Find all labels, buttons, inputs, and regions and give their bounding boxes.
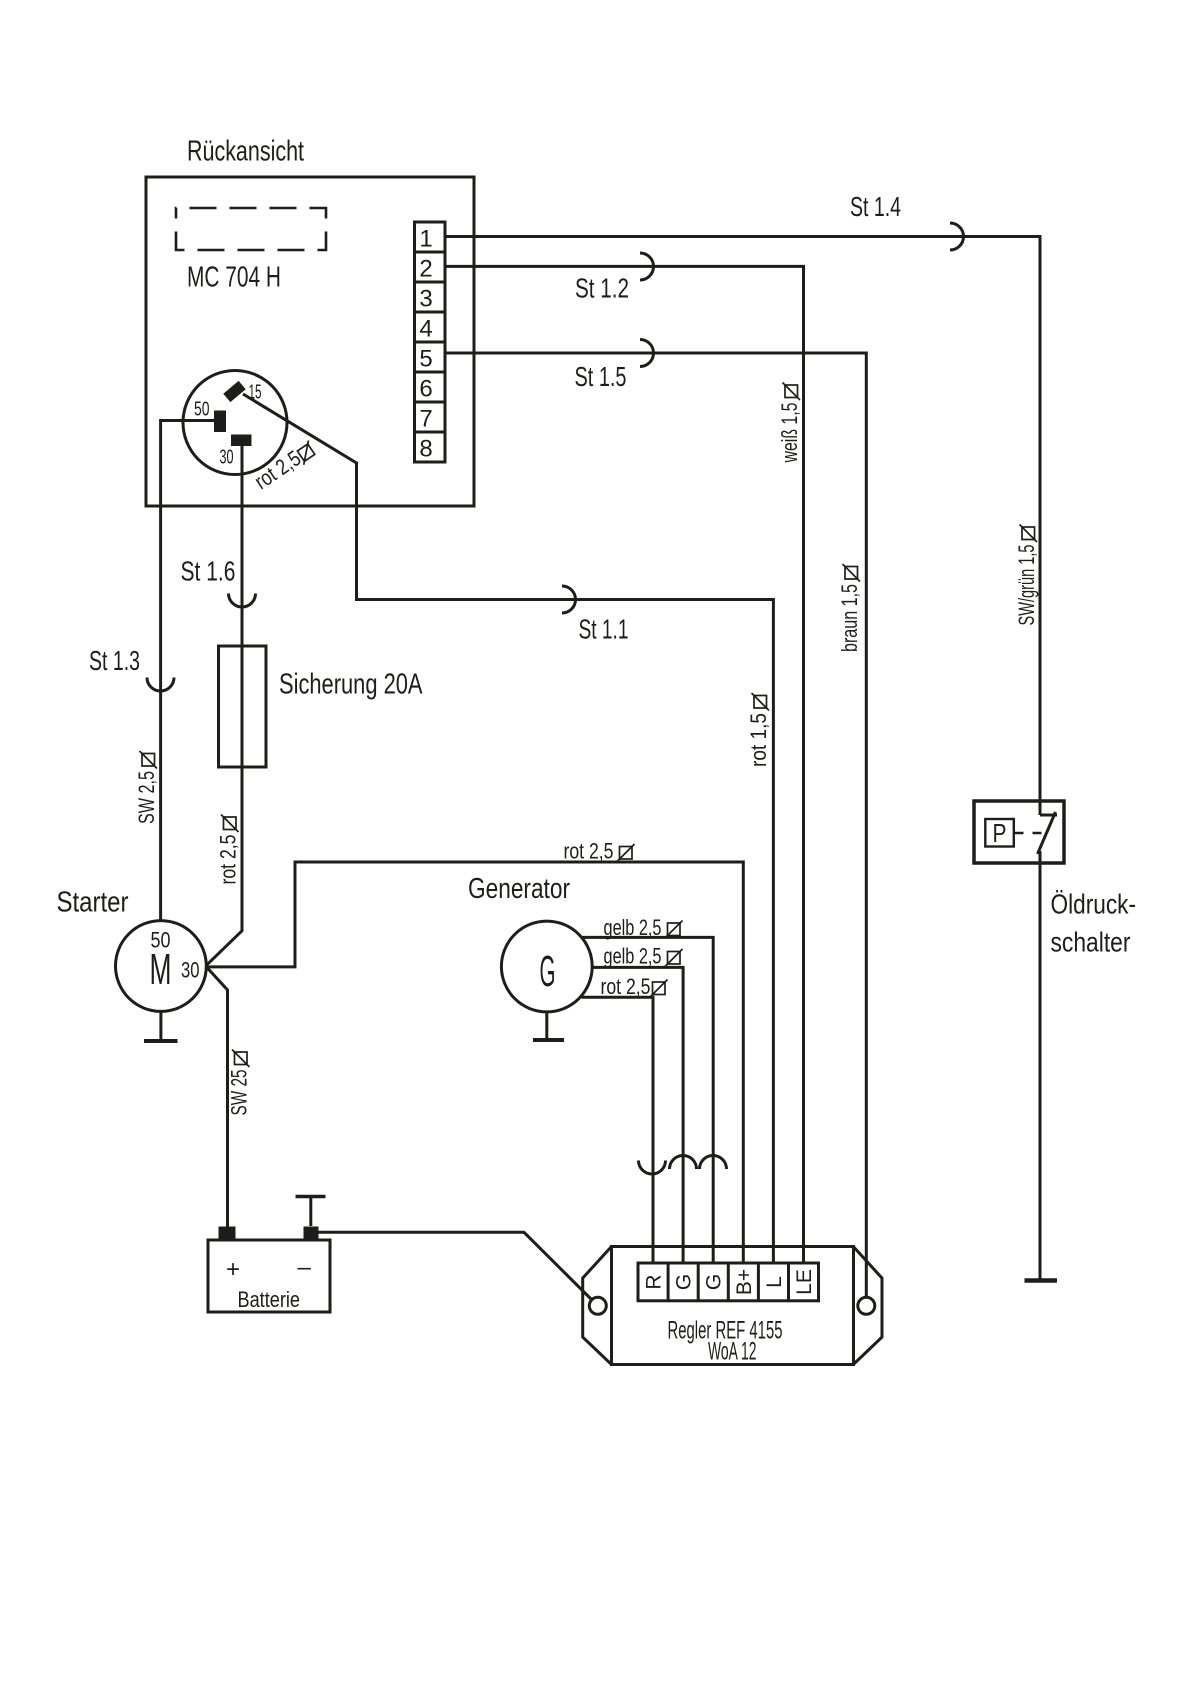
svg-text:braun 1,5: braun 1,5: [837, 584, 862, 652]
svg-text:30: 30: [181, 958, 200, 983]
label rot 2,5 dia (vertical, fuse wire): [216, 815, 241, 885]
battery plus terminal: [219, 1227, 236, 1241]
svg-text:8: 8: [419, 436, 432, 463]
ground (starter): [159, 1011, 162, 1041]
wire starter30 to battery plus: [207, 967, 228, 1227]
contact 50: [214, 411, 226, 433]
switch lever: [1038, 812, 1056, 854]
connector St 1.6 arc: [229, 594, 256, 608]
svg-text:St 1.3: St 1.3: [89, 645, 140, 676]
wire contact15 to regulator L (St 1.1): [243, 394, 773, 1263]
wire oil switch to ground: [1039, 851, 1042, 1279]
svg-text:3: 3: [419, 286, 432, 313]
svg-text:Rückansicht: Rückansicht: [187, 136, 304, 168]
svg-text:G: G: [673, 1274, 696, 1290]
fuse Sicherung 20A: [219, 646, 267, 767]
terminal label R: [643, 1274, 666, 1289]
wire generator mid to regulator G2: [592, 967, 683, 1263]
connector arc on R wire: [639, 1161, 666, 1175]
regulator right mounting tab: [853, 1247, 882, 1365]
connector strip terminals 1-8: [415, 222, 446, 462]
oil pressure switch box: [974, 801, 1064, 863]
svg-text:5: 5: [419, 346, 432, 373]
regulator REF 4155 body: [612, 1247, 854, 1365]
svg-text:St 1.6: St 1.6: [181, 556, 236, 587]
regulator right mounting hole: [858, 1297, 875, 1314]
svg-text:Batterie: Batterie: [238, 1287, 301, 1312]
connector arc on G3 wire: [700, 1156, 727, 1170]
switch housing MC 704 H outline: [146, 177, 474, 506]
svg-text:WoA 12: WoA 12: [708, 1338, 757, 1366]
svg-text:schalter: schalter: [1051, 927, 1131, 958]
terminal label G: [673, 1274, 696, 1290]
connector arc on G2 wire: [670, 1156, 697, 1170]
svg-text:gelb 2,5: gelb 2,5: [604, 944, 662, 969]
label SW 25 dia (vertical): [227, 1050, 252, 1116]
wire battery minus to regulator ground lug: [318, 1232, 592, 1300]
svg-text:rot 2,5: rot 2,5: [216, 835, 241, 885]
svg-text:1: 1: [419, 226, 432, 253]
svg-text:St 1.2: St 1.2: [575, 273, 629, 304]
wire contact50 to starter (St 1.3): [161, 421, 215, 922]
svg-text:G: G: [540, 947, 556, 996]
svg-text:R: R: [643, 1274, 666, 1289]
svg-text:B+: B+: [733, 1269, 756, 1295]
svg-text:Öldruck-: Öldruck-: [1051, 889, 1137, 920]
terminal label B+: [733, 1269, 756, 1295]
regulator left mounting hole: [589, 1297, 606, 1314]
svg-text:rot 2,5: rot 2,5: [564, 839, 614, 864]
contact 30: [231, 435, 252, 447]
svg-text:4: 4: [419, 316, 432, 343]
svg-text:LE: LE: [793, 1269, 816, 1295]
terminal label G: [703, 1274, 726, 1290]
battery: [208, 1240, 330, 1312]
svg-text:G: G: [703, 1274, 726, 1290]
contact 15: [223, 381, 245, 402]
regulator left mounting tab: [583, 1247, 612, 1365]
label rot 2,5 dia (diagonal): [250, 436, 320, 494]
svg-text:Sicherung 20A: Sicherung 20A: [279, 669, 423, 701]
label SW 2,5 dia (vertical): [134, 751, 159, 824]
svg-text:SW/grün 1,5: SW/grün 1,5: [1014, 545, 1039, 626]
svg-text:7: 7: [419, 406, 432, 433]
battery minus terminal: [304, 1227, 319, 1241]
svg-text:St 1.1: St 1.1: [579, 614, 629, 645]
svg-text:St 1.5: St 1.5: [575, 361, 627, 392]
connector St 1.5 arc: [640, 340, 654, 367]
svg-text:P: P: [993, 818, 1007, 848]
svg-text:MC 704 H: MC 704 H: [187, 262, 281, 294]
ground (oil switch): [1025, 1278, 1058, 1283]
label weiss 1,5 dia (vertical): [777, 383, 802, 464]
regulator terminal row: [638, 1263, 819, 1301]
svg-text:weiß 1,5: weiß 1,5: [777, 403, 802, 464]
svg-text:50: 50: [194, 399, 210, 421]
dashed frame: [176, 208, 326, 250]
svg-text:St 1.4: St 1.4: [850, 191, 901, 222]
svg-text:+: +: [226, 1256, 240, 1283]
label rot 1,5 dia (vertical): [746, 693, 771, 767]
ground (battery): [309, 1197, 312, 1226]
svg-text:2: 2: [419, 256, 432, 283]
pressure sensor P box: [985, 819, 1014, 847]
dashed actuator link: [1015, 832, 1042, 834]
label braun 1,5 dia (vertical): [837, 564, 862, 652]
connector St 1.3 arc: [147, 678, 174, 692]
ignition switch circle: [183, 371, 287, 475]
wire generator bottom to regulator R: [582, 997, 654, 1263]
starter motor M: [115, 921, 206, 1012]
svg-text:6: 6: [419, 376, 432, 403]
svg-text:–: –: [298, 1254, 312, 1281]
svg-text:SW 2,5: SW 2,5: [134, 771, 159, 824]
wire terminal1 to oil switch (St 1.4): [445, 237, 1040, 816]
wire terminal5 to regulator ground lug (St 1.5): [445, 353, 866, 1297]
terminal label L: [763, 1276, 786, 1288]
svg-text:30: 30: [220, 447, 234, 469]
svg-text:rot 1,5: rot 1,5: [746, 713, 771, 767]
connector St 1.4 arc: [950, 223, 964, 250]
terminal label LE: [793, 1269, 816, 1295]
svg-text:Starter: Starter: [57, 887, 129, 919]
switch contact bar: [1040, 814, 1057, 817]
wire contact30 through fuse to starter (St 1.6): [207, 445, 243, 965]
svg-text:gelb 2,5: gelb 2,5: [604, 915, 662, 940]
connector St 1.1 arc: [562, 586, 576, 613]
svg-text:M: M: [150, 945, 172, 994]
wire terminal2 to regulator LE (St 1.2): [445, 266, 804, 1263]
svg-text:Generator: Generator: [468, 873, 570, 905]
connector St 1.2 arc: [640, 253, 654, 280]
svg-text:L: L: [763, 1276, 786, 1288]
ground (generator): [545, 1012, 548, 1040]
generator G: [501, 921, 592, 1012]
svg-text:SW 25: SW 25: [227, 1070, 252, 1116]
wire starter30 to regulator B+: [207, 862, 744, 1263]
wire generator top to regulator G3: [582, 937, 714, 1263]
svg-text:rot 2,5: rot 2,5: [601, 974, 651, 999]
label SW/gruen 1,5 dia (vertical): [1014, 525, 1039, 626]
